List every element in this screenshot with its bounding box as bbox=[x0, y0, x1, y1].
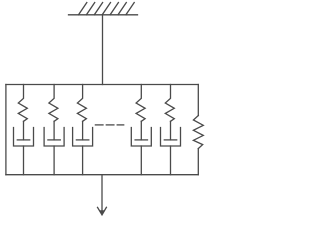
output rod (applied load) bbox=[101, 175, 103, 214]
Maxwell branch n: piston rod bbox=[170, 121, 172, 140]
ellipsis dashes (continuation) bbox=[95, 124, 123, 126]
bottom bar bbox=[6, 174, 198, 176]
Maxwell branch 3: dashpot cup c3 bbox=[73, 128, 93, 147]
fixed support hatch marks bbox=[79, 3, 135, 15]
Maxwell branch n: dashpot cup bbox=[161, 128, 181, 147]
arrowhead bbox=[98, 207, 107, 215]
Maxwell branch n-1: piston rod bbox=[140, 121, 142, 140]
Maxwell branch n-1: spring bbox=[136, 85, 145, 122]
Maxwell branch 1: dashpot cup c1 bbox=[14, 128, 34, 147]
Maxwell branch n: lower wire bbox=[170, 146, 172, 175]
Maxwell branch 2: piston rod bbox=[53, 121, 55, 140]
Maxwell branch n-1: dashpot piston bbox=[135, 139, 147, 141]
Maxwell branch n: spring bbox=[165, 85, 174, 122]
equilibrium spring lower wire bbox=[197, 149, 199, 175]
top bar bbox=[6, 84, 198, 86]
input rod from support to top bar bbox=[102, 15, 104, 85]
Maxwell branch n-1: dashpot cup bbox=[131, 128, 151, 147]
Maxwell branch 3: lower wire bbox=[82, 146, 84, 175]
left edge wire bbox=[5, 85, 7, 175]
Maxwell branch 3: dashpot piston bbox=[76, 139, 88, 141]
fixed support ceiling line bbox=[69, 14, 138, 16]
Maxwell branch 3: spring k3 bbox=[77, 85, 86, 122]
Maxwell branch n-1: lower wire bbox=[140, 146, 142, 175]
Maxwell branch 1: spring k1 bbox=[18, 85, 27, 122]
Maxwell branch 2: spring k2 bbox=[49, 85, 58, 122]
Maxwell branch 2: dashpot piston bbox=[48, 139, 60, 141]
Maxwell branch 1: piston rod bbox=[23, 121, 25, 140]
Maxwell branch 2: lower wire bbox=[53, 146, 55, 175]
Maxwell branch 1: dashpot piston bbox=[17, 139, 29, 141]
Maxwell branch 2: dashpot cup c2 bbox=[44, 128, 64, 147]
equilibrium spring (right edge) upper wire bbox=[197, 85, 199, 116]
equilibrium spring bbox=[193, 116, 203, 149]
Maxwell branch n: dashpot piston bbox=[164, 139, 176, 141]
Maxwell branch 1: lower wire bbox=[23, 146, 25, 175]
Maxwell branch 3: piston rod bbox=[82, 121, 84, 140]
